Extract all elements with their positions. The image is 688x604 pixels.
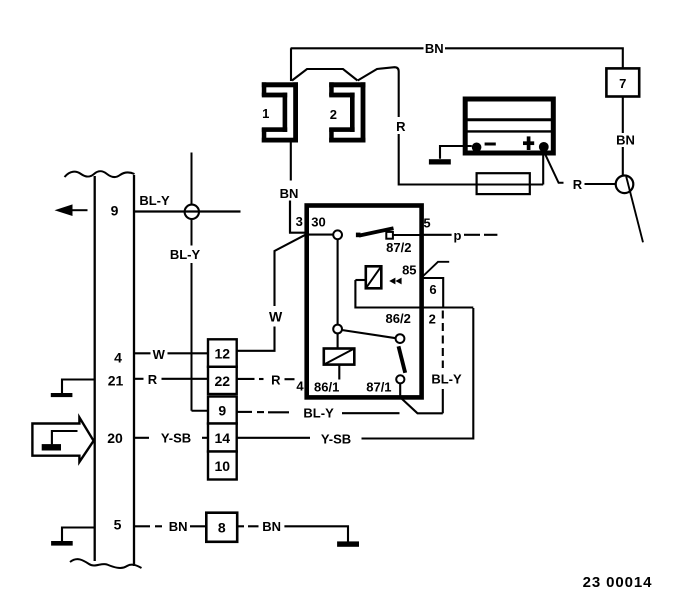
svg-text:86/2: 86/2	[386, 311, 411, 326]
svg-text:2: 2	[330, 107, 337, 122]
svg-text:BL-Y: BL-Y	[139, 193, 170, 208]
svg-text:BN: BN	[425, 41, 444, 56]
svg-text:87/2: 87/2	[386, 240, 411, 255]
svg-text:R: R	[396, 119, 406, 134]
svg-text:7: 7	[619, 76, 626, 91]
svg-text:9: 9	[218, 403, 226, 419]
svg-text:W: W	[153, 347, 166, 362]
svg-text:21: 21	[108, 372, 124, 388]
svg-text:4: 4	[296, 379, 304, 394]
svg-text:22: 22	[215, 373, 231, 389]
svg-text:4: 4	[114, 350, 122, 366]
svg-text:14: 14	[215, 430, 231, 446]
svg-text:12: 12	[215, 346, 231, 362]
svg-text:BN: BN	[616, 133, 635, 148]
svg-text:87/1: 87/1	[366, 380, 391, 395]
svg-text:1: 1	[262, 106, 269, 121]
svg-text:R: R	[271, 373, 281, 388]
svg-text:9: 9	[111, 203, 119, 219]
svg-text:85: 85	[402, 263, 416, 278]
svg-text:5: 5	[114, 517, 122, 533]
svg-text:2: 2	[429, 312, 436, 327]
svg-text:BN: BN	[169, 519, 188, 534]
svg-text:BL-Y: BL-Y	[170, 247, 201, 262]
svg-text:10: 10	[215, 458, 231, 474]
svg-text:6: 6	[429, 282, 436, 297]
svg-text:R: R	[148, 372, 158, 387]
svg-text:Y-SB: Y-SB	[321, 432, 351, 447]
svg-text:BL-Y: BL-Y	[303, 406, 334, 421]
svg-text:Y-SB: Y-SB	[161, 431, 191, 446]
svg-text:BN: BN	[280, 186, 299, 201]
svg-text:5: 5	[423, 216, 430, 231]
svg-text:20: 20	[107, 430, 123, 446]
svg-text:BN: BN	[262, 519, 281, 534]
svg-text:3: 3	[296, 214, 303, 229]
svg-text:23 00014: 23 00014	[583, 574, 653, 591]
svg-text:86/1: 86/1	[314, 380, 339, 395]
svg-text:W: W	[269, 309, 283, 325]
svg-text:30: 30	[311, 215, 325, 230]
svg-text:R: R	[573, 177, 583, 192]
svg-text:BL-Y: BL-Y	[431, 372, 462, 387]
svg-text:p: p	[454, 228, 462, 243]
svg-text:8: 8	[218, 520, 226, 536]
